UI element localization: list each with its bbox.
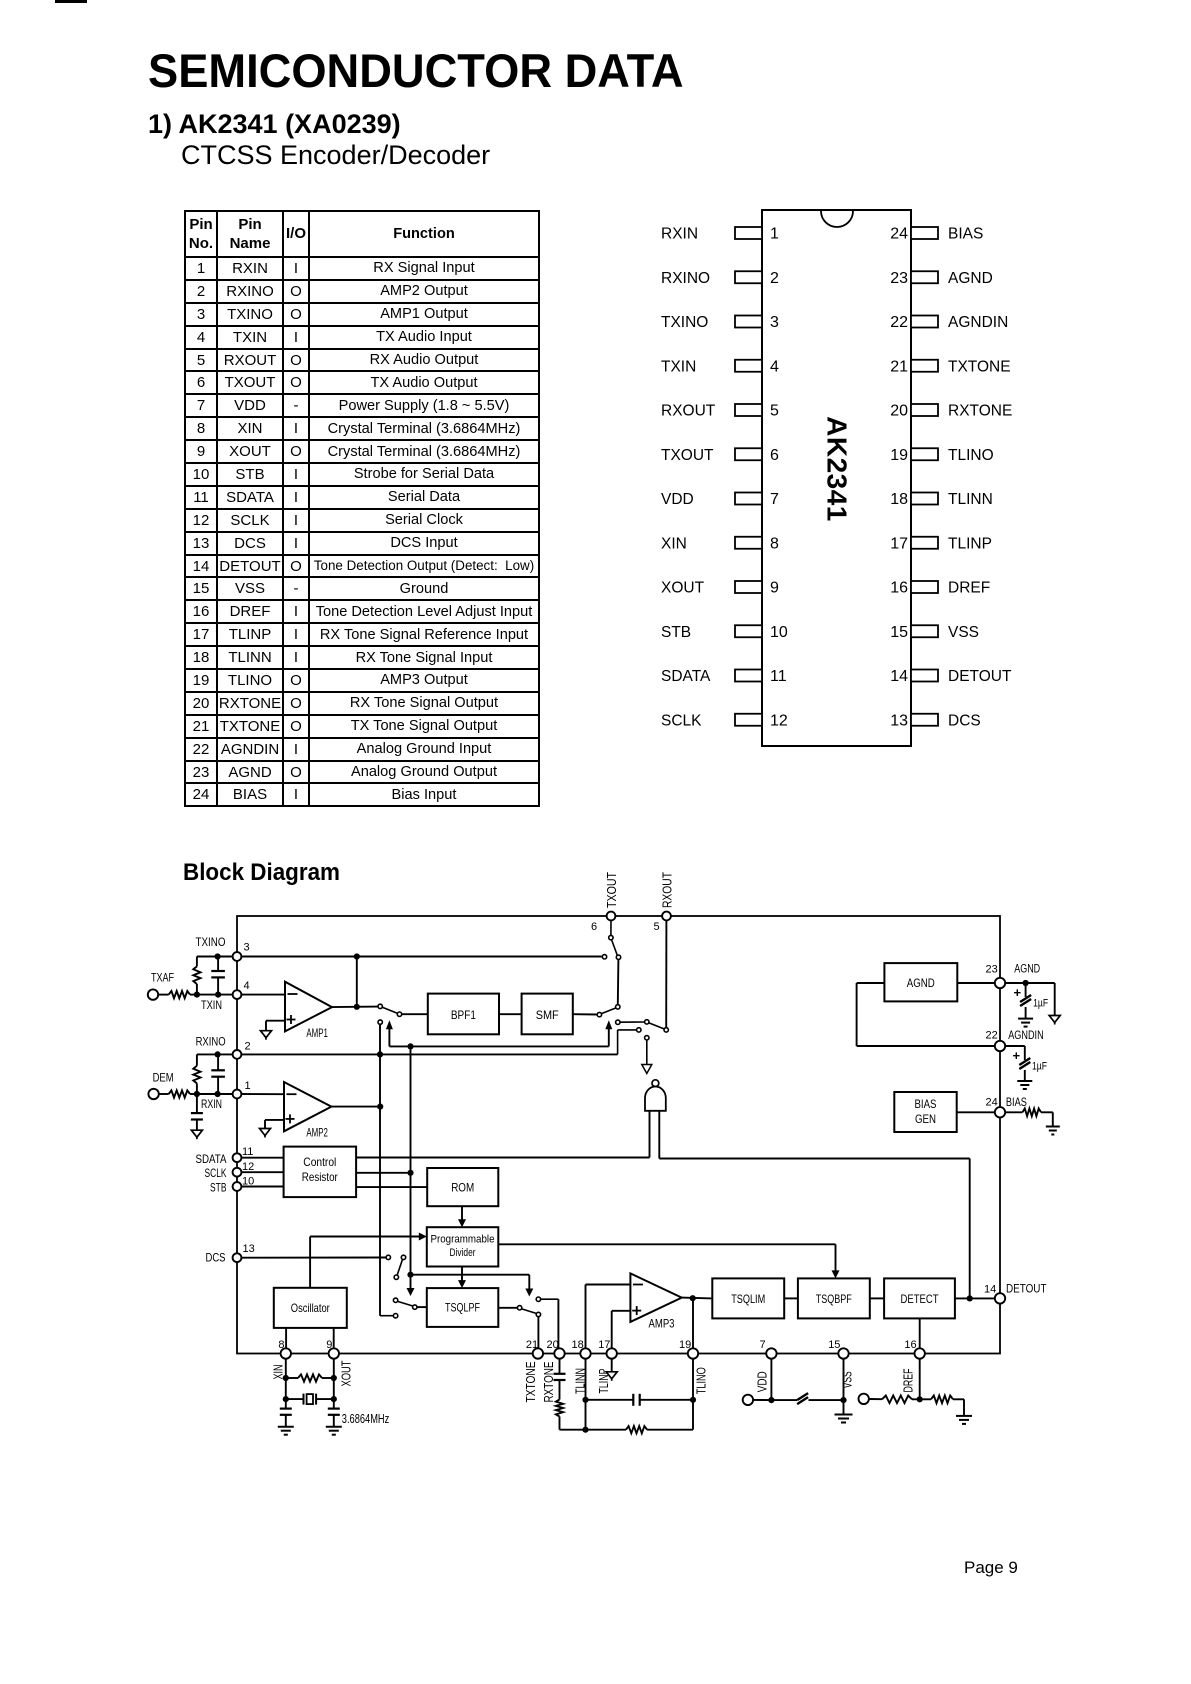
svg-text:3: 3: [244, 942, 250, 954]
svg-text:TXOUT: TXOUT: [604, 872, 619, 908]
wire switch common to TSQLPF: [417, 1306, 427, 1308]
svg-text:8: 8: [278, 1339, 284, 1351]
svg-text:BIAS: BIAS: [948, 226, 983, 243]
ground below AGND capacitor: [1018, 1019, 1033, 1027]
svg-text:RXIN: RXIN: [661, 226, 698, 243]
svg-text:22: 22: [986, 1030, 998, 1042]
svg-text:3: 3: [770, 314, 779, 331]
wire pin 17 riser to AMP3 plus input: [612, 1311, 631, 1348]
svg-text:RXIN: RXIN: [201, 1099, 222, 1111]
wire switch common to BPF1 input: [402, 1013, 428, 1015]
svg-text:RXOUT: RXOUT: [661, 403, 716, 420]
pin 21 TXTONE (package right): [890, 358, 1010, 375]
svg-text:TSQLIM: TSQLIM: [731, 1292, 765, 1306]
svg-text:VSS: VSS: [948, 624, 979, 641]
terminal TXAF: [148, 973, 174, 1000]
node SCLK pin 12: [205, 1161, 255, 1180]
pin 23 AGND (right): [986, 964, 1041, 989]
svg-text:AMP1: AMP1: [306, 1028, 328, 1040]
resistor TLINN-TLINO: [586, 1400, 694, 1434]
switch TXOUT select upper contact: [609, 920, 621, 959]
block diagram outer boundary (chip border): [237, 916, 1000, 1354]
svg-text:TXIN: TXIN: [661, 358, 696, 375]
pin 13 DCS (package right): [890, 712, 981, 729]
svg-text:AGNDIN: AGNDIN: [948, 314, 1008, 331]
svg-text:SCLK: SCLK: [205, 1168, 227, 1180]
op-amp AMP2: [284, 1082, 331, 1140]
pin 6 TXOUT (top): [591, 912, 615, 933]
wire DETECT bottom to pin 16: [919, 1318, 921, 1348]
wire TXOUT switch arm down to SMF-side contact: [597, 960, 620, 1017]
svg-text:TXAF: TXAF: [151, 973, 174, 985]
svg-text:TLINP: TLINP: [948, 535, 992, 552]
wire TXIN junction to node 4: [194, 992, 233, 998]
svg-text:12: 12: [242, 1161, 254, 1173]
control arrow at TXOUT/RXOUT switch: [605, 1020, 612, 1046]
svg-text:RXINO: RXINO: [661, 270, 710, 287]
svg-text:TXOUT: TXOUT: [661, 447, 714, 464]
capacitor TLINN-TLINO: [586, 1394, 694, 1406]
node SDATA pin 11: [196, 1146, 254, 1166]
svg-text:DCS: DCS: [948, 712, 981, 729]
heading Block Diagram: [183, 859, 340, 886]
svg-text:TLINO: TLINO: [693, 1367, 708, 1394]
pin 2 RXINO (package left): [661, 270, 779, 287]
node TXINO pin 3: [196, 937, 250, 961]
terminal VDD supply: [743, 1395, 772, 1405]
svg-text:11: 11: [770, 668, 787, 685]
wire RXINO line from feedback to node 2: [197, 1051, 233, 1057]
wire ROM to programmable divider (arrow): [458, 1206, 466, 1227]
gate U1 (NAND bubble up): [645, 1080, 666, 1111]
terminal DEM: [148, 1072, 173, 1099]
svg-text:14: 14: [890, 668, 908, 685]
block TSQLPF: [427, 1288, 499, 1327]
resistor RXIN-RXINO feedback: [193, 1054, 200, 1094]
svg-text:6: 6: [591, 921, 597, 933]
wire node4 to AMP1 minus input: [241, 994, 285, 996]
block TSQLIM: [712, 1278, 784, 1318]
pin 22 AGNDIN (right): [986, 1030, 1044, 1052]
wire BIAS GEN to pin 24: [957, 1111, 996, 1113]
svg-text:BIAS: BIAS: [1006, 1097, 1027, 1109]
svg-text:13: 13: [890, 712, 908, 729]
wire TSQBPF to DETECT: [870, 1297, 884, 1299]
svg-text:24: 24: [890, 226, 908, 243]
svg-text:DREF: DREF: [948, 580, 990, 597]
svg-text:TXINO: TXINO: [196, 937, 226, 949]
svg-text:20: 20: [547, 1339, 559, 1351]
block Control Resistor: [284, 1147, 357, 1198]
pin 16 DREF (bottom): [901, 1339, 925, 1393]
svg-text:15: 15: [890, 624, 908, 641]
wire control resistor output to control bus: [356, 1172, 410, 1174]
pin 11 SDATA (package left): [661, 668, 787, 685]
svg-text:Resistor: Resistor: [302, 1170, 338, 1184]
svg-text:BPF1: BPF1: [451, 1008, 476, 1022]
pin 23 AGND (package right): [890, 270, 993, 287]
block BIAS GEN: [894, 1092, 956, 1132]
svg-text:TLINN: TLINN: [948, 491, 993, 508]
svg-text:21: 21: [526, 1339, 538, 1351]
svg-text:TXTONE: TXTONE: [948, 358, 1011, 375]
svg-text:19: 19: [679, 1339, 691, 1351]
capacitor below RXTONE: [554, 1359, 566, 1400]
switch RX path contact (to BPF1): [378, 1020, 382, 1024]
wire DCS line to switch: [241, 1255, 390, 1259]
capacitor 1uF at AGND: [1014, 983, 1049, 1019]
node STB pin 10: [210, 1176, 254, 1195]
wire RXIN junction to node 1: [194, 1091, 233, 1097]
svg-text:4: 4: [770, 358, 779, 375]
wire XOUT drop: [331, 1359, 337, 1409]
switch TSQLPF input select: [393, 1298, 417, 1309]
wire TXTONE drop to pin 21: [537, 1317, 539, 1348]
svg-text:TXTONE: TXTONE: [523, 1361, 538, 1402]
IC package label AK2341: [822, 416, 853, 522]
ground at AMP1 plus input: [261, 1031, 272, 1040]
resistor below RXTONE: [556, 1400, 586, 1430]
label TXOUT vertical: [604, 872, 619, 908]
switch contact from RX riser: [380, 1314, 398, 1318]
pin 5 RXOUT (package left): [661, 403, 779, 420]
block SMF filter: [522, 994, 573, 1035]
svg-text:10: 10: [770, 624, 788, 641]
capacitor RXIN to ground: [191, 1094, 203, 1130]
block ROM: [427, 1168, 498, 1206]
capacitor XOUT to ground: [328, 1409, 340, 1427]
pin 15 VSS (bottom): [828, 1339, 854, 1388]
wire RX signal riser (AMP2 output to switch): [377, 1024, 383, 1313]
node RXIN pin 1: [201, 1080, 251, 1111]
svg-text:1: 1: [770, 226, 779, 243]
pin 18 TLINN (bottom): [572, 1339, 591, 1394]
wire VDD drop: [768, 1359, 774, 1404]
resistor TXAF series: [158, 991, 197, 998]
svg-text:13: 13: [243, 1243, 255, 1255]
svg-text:XOUT: XOUT: [661, 580, 705, 597]
ground below RXIN capacitor: [191, 1130, 202, 1139]
wire gate right input down and to detect node: [659, 1111, 969, 1299]
svg-text:TSQBPF: TSQBPF: [816, 1292, 852, 1306]
capacitor 1uF at AGNDIN: [1005, 1046, 1047, 1081]
wire AMP2 plus input to ground: [265, 1120, 284, 1129]
wire SDATA to control resistor: [241, 1157, 283, 1159]
block BPF1 band-pass filter: [428, 994, 499, 1035]
svg-text:9: 9: [326, 1339, 332, 1351]
svg-text:BIAS: BIAS: [915, 1097, 937, 1111]
ground below XOUT cap: [326, 1427, 342, 1435]
resistor DREF series: [869, 1396, 920, 1404]
ground at VSS: [835, 1415, 853, 1423]
battery/decoupling symbol VDD-VSS: [771, 1393, 843, 1404]
wire RXTONE drop to pin 20: [557, 1299, 559, 1348]
svg-text:TXIN: TXIN: [201, 1000, 222, 1012]
wire TSQLIM to TSQBPF: [784, 1297, 798, 1299]
wire node1 to AMP2 minus input: [241, 1093, 284, 1095]
wire AMP3 output to pin 19: [692, 1298, 694, 1348]
svg-text:7: 7: [760, 1339, 766, 1351]
svg-text:XOUT: XOUT: [339, 1360, 354, 1386]
svg-text:8: 8: [770, 535, 779, 552]
op-amp AMP1: [285, 982, 332, 1040]
wire AMP1 output to junction: [332, 1004, 378, 1010]
wire STB to control resistor: [241, 1186, 283, 1188]
svg-text:Oscillator: Oscillator: [291, 1301, 330, 1315]
pin 14 DETOUT (right): [984, 1284, 1047, 1304]
capacitor RXIN-RXINO: [211, 1054, 225, 1094]
pin 6 TXOUT (package left): [661, 447, 779, 464]
pin 9 XOUT (bottom): [326, 1339, 353, 1387]
pin 12 SCLK (package left): [661, 712, 788, 729]
svg-text:VDD: VDD: [661, 491, 694, 508]
svg-text:AGND: AGND: [907, 976, 935, 990]
wire divider output to TSQBPF (arrow): [498, 1244, 839, 1278]
svg-text:AMP2: AMP2: [306, 1128, 328, 1140]
ground below AGNDIN capacitor: [1017, 1081, 1032, 1089]
wire AGND box feedback to AGNDIN: [857, 983, 996, 1046]
wire SCLK to control resistor: [241, 1171, 283, 1173]
svg-text:24: 24: [986, 1097, 998, 1109]
svg-text:14: 14: [984, 1284, 996, 1296]
pin 17 TLINP (package right): [890, 535, 992, 552]
svg-text:TSQLPF: TSQLPF: [445, 1301, 480, 1315]
ground below XIN cap: [278, 1427, 294, 1435]
wire control resistor output to ROM: [356, 1186, 427, 1188]
crystal X1 3.6864MHz: [286, 1394, 390, 1426]
pin 14 DETOUT (package right): [890, 668, 1012, 685]
svg-text:6: 6: [770, 447, 779, 464]
svg-text:XIN: XIN: [661, 535, 687, 552]
pin 22 AGNDIN (package right): [890, 314, 1008, 331]
wire RXOUT pin drop to switch common: [664, 920, 668, 1032]
svg-text:SMF: SMF: [536, 1008, 559, 1022]
pin 20 RXTONE (package right): [890, 403, 1012, 420]
label RXOUT vertical: [660, 872, 675, 908]
wire AMP1 output junction up to TXINO line: [354, 953, 360, 1006]
svg-text:17: 17: [598, 1339, 610, 1351]
resistor TXIN-TXINO feedback: [193, 957, 200, 995]
pin 16 DREF (package right): [890, 580, 990, 597]
svg-text:ROM: ROM: [451, 1181, 474, 1195]
block AGND generator: [884, 963, 957, 1001]
wire DREF drop: [917, 1359, 923, 1403]
svg-text:RXTONE: RXTONE: [541, 1361, 556, 1402]
switch lower contact to NAND gate: [645, 1036, 649, 1065]
pin 7 VDD (package left): [661, 491, 779, 508]
block TSQBPF: [798, 1278, 870, 1318]
wire TLINO drop to feedback: [690, 1359, 696, 1403]
svg-text:AGND: AGND: [948, 270, 993, 287]
svg-text:Programmable: Programmable: [431, 1234, 495, 1246]
wire control resistor output to gate input: [356, 1157, 649, 1159]
wire SMF output to switch contact: [573, 1013, 597, 1015]
pin 19 TLINO (package right): [890, 447, 993, 464]
svg-text:DEM: DEM: [153, 1072, 174, 1084]
svg-text:+: +: [1013, 1048, 1021, 1063]
svg-text:DCS: DCS: [206, 1253, 226, 1265]
wire pin 18 riser to AMP3 minus input: [586, 1285, 631, 1349]
svg-text:16: 16: [904, 1339, 916, 1351]
svg-text:AGND: AGND: [1014, 964, 1040, 976]
ground at AMP2 plus input: [260, 1129, 271, 1138]
pin 8 XIN (bottom): [271, 1339, 291, 1380]
wire TLINN drop: [582, 1359, 588, 1433]
pin 17 TLINP (bottom): [596, 1339, 617, 1394]
svg-text:TLINO: TLINO: [948, 447, 994, 464]
block Programmable Divider: [427, 1227, 499, 1266]
pin 10 STB (package left): [661, 624, 788, 641]
pin 24 BIAS (package right): [890, 226, 983, 243]
svg-text:DETOUT: DETOUT: [1006, 1284, 1047, 1296]
svg-text:SDATA: SDATA: [196, 1154, 227, 1166]
svg-text:1µF: 1µF: [1032, 1061, 1047, 1073]
control arrow at BPF1 input switch: [386, 1020, 393, 1046]
svg-text:16: 16: [890, 580, 908, 597]
pin 8 XIN (package left): [661, 535, 779, 552]
svg-text:VDD: VDD: [755, 1371, 770, 1392]
ground below BIAS resistor: [1046, 1127, 1060, 1135]
svg-text:Divider: Divider: [450, 1247, 476, 1259]
wire gate left input down to control-resistor line: [649, 1111, 651, 1158]
svg-text:21: 21: [890, 358, 908, 375]
svg-text:DETOUT: DETOUT: [948, 668, 1012, 685]
svg-text:Control: Control: [303, 1155, 336, 1169]
switch TSQLPF output to TXTONE: [498, 1306, 540, 1317]
wire switch control line: [389, 1043, 608, 1049]
pin 19 TLINO (bottom): [679, 1339, 708, 1394]
block DETECT: [884, 1278, 955, 1318]
resistor BIAS external: [1005, 1109, 1053, 1127]
wire DETECT output to pin 14 DETOUT: [955, 1295, 996, 1301]
wire XIN drop: [283, 1359, 289, 1409]
svg-text:23: 23: [986, 964, 998, 976]
svg-text:4: 4: [244, 980, 250, 992]
svg-text:11: 11: [242, 1146, 253, 1158]
switch RXOUT arm to BPF-path contact: [616, 1020, 665, 1029]
svg-text:SCLK: SCLK: [661, 712, 702, 729]
switch TX path select (AMP1 to BPF1): [378, 1004, 402, 1016]
svg-text:7: 7: [770, 491, 779, 508]
svg-text:5: 5: [770, 403, 779, 420]
wire divider output to TSQLPF (arrow): [458, 1267, 466, 1289]
pin 20 RXTONE (bottom): [541, 1339, 565, 1403]
pin 5 RXOUT (top): [654, 912, 671, 933]
svg-text:AMP3: AMP3: [649, 1319, 675, 1331]
svg-text:9: 9: [770, 580, 779, 597]
svg-text:2: 2: [245, 1041, 251, 1053]
svg-text:1: 1: [245, 1080, 251, 1092]
svg-text:2: 2: [770, 270, 779, 287]
wire oscillator to pin 8: [285, 1328, 287, 1348]
wire oscillator output to divider input (arrow): [310, 1233, 427, 1288]
ground arrow at AGND external: [1049, 1016, 1060, 1025]
ground below DREF resistor: [956, 1416, 972, 1424]
svg-text:DETECT: DETECT: [901, 1292, 940, 1306]
node TXIN pin 4: [201, 980, 250, 1012]
resistor XIN-XOUT: [286, 1374, 334, 1381]
pin 1 RXIN (package left): [661, 226, 779, 243]
svg-text:22: 22: [890, 314, 908, 331]
svg-text:RXOUT: RXOUT: [660, 872, 675, 908]
pin 9 XOUT (package left): [661, 580, 779, 597]
capacitor TXIN-TXINO: [211, 957, 225, 998]
node DCS pin 13: [206, 1243, 255, 1265]
resistor DEM series: [159, 1090, 197, 1097]
wire VSS drop to ground: [840, 1359, 846, 1415]
scan artifact mark at top edge: [55, 0, 87, 3]
wire TXINO line from feedback to node 3: [197, 953, 233, 959]
svg-text:RXTONE: RXTONE: [948, 403, 1012, 420]
IC package AK2341 DIP-24 body: [762, 210, 911, 746]
svg-text:DREF: DREF: [901, 1368, 916, 1392]
svg-text:15: 15: [828, 1339, 840, 1351]
svg-text:18: 18: [890, 491, 908, 508]
wire AGND external node: [1005, 980, 1054, 1016]
svg-text:3.6864MHz: 3.6864MHz: [342, 1412, 390, 1426]
switch RXOUT alternate contact (from RXINO line): [618, 1028, 641, 1055]
wire AMP3 output to TSQLIM: [682, 1295, 713, 1301]
pin 4 TXIN (package left): [661, 358, 779, 375]
wire AMP2 output to RX riser: [331, 1106, 380, 1108]
block Oscillator: [274, 1288, 347, 1328]
capacitor XIN to ground: [280, 1409, 292, 1427]
svg-text:12: 12: [770, 712, 788, 729]
arrow into tone-detect gate: [642, 1065, 652, 1074]
switch DCS select: [394, 1255, 406, 1279]
svg-text:20: 20: [890, 403, 908, 420]
svg-text:Block Diagram: Block Diagram: [183, 859, 340, 886]
svg-text:19: 19: [890, 447, 908, 464]
wire oscillator to pin 9: [333, 1328, 335, 1348]
switch contact to RXTONE: [536, 1297, 558, 1301]
svg-text:VSS: VSS: [840, 1371, 855, 1388]
pin 21 TXTONE (bottom): [523, 1339, 543, 1403]
svg-text:STB: STB: [210, 1182, 227, 1194]
svg-text:1µF: 1µF: [1033, 998, 1048, 1010]
wire control bus vertical: [407, 1046, 413, 1274]
pin 24 BIAS (right): [986, 1097, 1028, 1118]
svg-text:SDATA: SDATA: [661, 668, 711, 685]
svg-text:STB: STB: [661, 624, 691, 641]
wire RXINO line (node 2 to riser): [241, 1053, 617, 1055]
svg-text:AK2341: AK2341: [822, 416, 853, 522]
svg-text:18: 18: [572, 1339, 584, 1351]
svg-text:TXINO: TXINO: [661, 314, 708, 331]
ground arrow below TLINP: [606, 1359, 617, 1381]
wire TXINO bypass line to switch: [241, 955, 606, 959]
wire AGND box to pin 23: [957, 982, 995, 984]
terminal DREF input: [859, 1394, 869, 1404]
svg-text:23: 23: [890, 270, 908, 287]
svg-text:RXINO: RXINO: [196, 1037, 226, 1049]
pin 3 TXINO (package left): [661, 314, 779, 331]
svg-text:GEN: GEN: [915, 1112, 936, 1126]
wire BPF1 to SMF: [499, 1013, 522, 1015]
svg-text:5: 5: [654, 921, 660, 933]
op-amp AMP3: [630, 1273, 681, 1330]
pin 7 VDD (bottom): [755, 1339, 777, 1392]
resistor DREF to ground: [920, 1396, 964, 1416]
svg-text:AGNDIN: AGNDIN: [1008, 1030, 1043, 1042]
pin 18 TLINN (package right): [890, 491, 993, 508]
svg-text:+: +: [1014, 985, 1022, 1000]
pin 15 VSS (package right): [890, 624, 979, 641]
node RXINO pin 2: [196, 1037, 251, 1059]
wire control bus branch with arrows to TSQLPF switches: [407, 1272, 534, 1297]
wire AMP1 plus input to ground: [266, 1021, 285, 1031]
svg-text:17: 17: [890, 535, 908, 552]
